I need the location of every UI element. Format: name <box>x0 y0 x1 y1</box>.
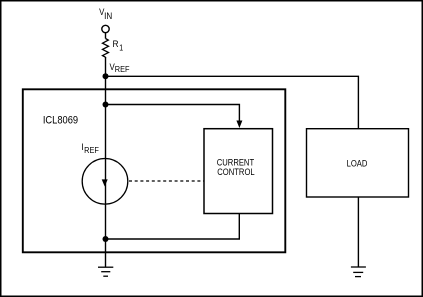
junction top node inside IC <box>103 102 109 108</box>
svg-text:LOAD: LOAD <box>347 158 368 169</box>
terminal VIN (open circle) <box>102 25 109 32</box>
node VIN label <box>99 7 112 22</box>
wire current-control bottom to bottom node <box>106 214 240 240</box>
ground (left) <box>98 267 113 276</box>
wire top node to current-control (with arrow) <box>106 105 243 129</box>
label IREF <box>81 142 99 156</box>
svg-text:ICL8069: ICL8069 <box>43 115 79 127</box>
wire through current source <box>105 105 107 240</box>
IC box ICL8069 <box>23 89 286 252</box>
svg-text:REF: REF <box>115 64 130 74</box>
label ICL8069 <box>43 115 79 127</box>
box LOAD <box>307 129 409 197</box>
junction bottom node inside IC <box>103 236 109 242</box>
ground (right) <box>351 267 366 277</box>
wire LOAD to ground <box>357 197 359 267</box>
node VREF label <box>109 62 129 74</box>
box CURRENT CONTROL <box>204 129 273 214</box>
svg-text:R: R <box>112 39 119 50</box>
svg-text:CONTROL: CONTROL <box>217 166 255 177</box>
wire VREF node down into IC <box>105 76 107 104</box>
wire bottom node to ground <box>105 239 107 267</box>
junction VREF node <box>103 73 109 79</box>
resistor R1 <box>103 39 109 58</box>
wire VREF node to LOAD (top run) <box>106 76 359 128</box>
svg-text:REF: REF <box>84 145 99 155</box>
wire resistor to VREF node <box>105 57 107 76</box>
arrow of current source (down) <box>102 179 108 186</box>
label LOAD <box>347 158 368 169</box>
dashed control line <box>129 180 204 182</box>
wire VIN terminal to resistor <box>105 33 107 39</box>
label R1 <box>112 39 123 53</box>
svg-text:1: 1 <box>119 43 123 53</box>
label CURRENT CONTROL <box>217 157 255 177</box>
current source IREF (circle) <box>82 159 128 205</box>
svg-text:IN: IN <box>104 11 112 22</box>
